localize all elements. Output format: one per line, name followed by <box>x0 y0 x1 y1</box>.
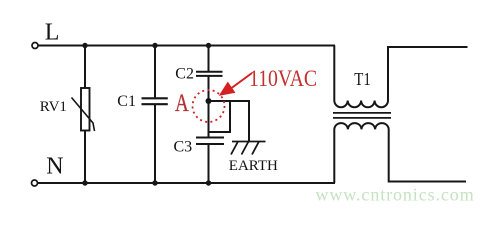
ground earth symbol <box>231 142 266 155</box>
svg-text:110VAC: 110VAC <box>249 65 317 91</box>
label EARTH <box>229 158 278 174</box>
node junction top C1 <box>152 43 157 48</box>
wire earth loop stub <box>209 101 231 132</box>
capacitor C2 <box>196 72 223 76</box>
svg-text:RV1: RV1 <box>40 99 67 115</box>
wire node A to earth <box>209 101 250 142</box>
transformer T1 secondary lead left / wire <box>333 136 335 183</box>
transformer T1 primary lead right <box>388 47 468 94</box>
capacitor C1 <box>142 98 168 104</box>
node junction bottom C3 <box>206 180 211 185</box>
transformer T1 core <box>333 113 391 118</box>
svg-text:T1: T1 <box>354 70 371 89</box>
node A junction <box>206 98 212 104</box>
label C2 <box>175 65 194 82</box>
svg-text:A: A <box>175 88 189 116</box>
wire RV1 bottom <box>84 131 86 184</box>
wire bottom rail N <box>38 182 335 184</box>
watermark <box>316 185 475 205</box>
svg-text:EARTH: EARTH <box>229 158 278 174</box>
svg-text:L: L <box>45 19 60 45</box>
wire C1 bottom <box>154 105 156 183</box>
wire C3 bottom <box>208 145 210 184</box>
svg-text:N: N <box>46 153 63 179</box>
label 110VAC (red) <box>249 65 317 91</box>
annotation arrow red <box>220 73 252 95</box>
label T1 <box>354 70 371 89</box>
svg-text:www.cntronics.com: www.cntronics.com <box>316 185 475 205</box>
transformer T1 secondary winding <box>334 123 388 136</box>
capacitor C3 <box>196 138 224 145</box>
transformer T1 primary winding <box>334 94 388 107</box>
varistor RV1 <box>72 88 95 131</box>
svg-text:C3: C3 <box>174 139 193 156</box>
node junction top RV1 <box>82 43 87 48</box>
label C1 <box>117 93 136 110</box>
node A red dashed circle <box>193 90 225 122</box>
svg-text:C1: C1 <box>117 93 136 110</box>
label L <box>45 19 60 45</box>
label RV1 <box>40 99 67 115</box>
node junction bottom C1 <box>152 180 157 185</box>
label node A (red) <box>175 88 189 116</box>
svg-text:C2: C2 <box>175 65 194 82</box>
wire RV1 top <box>84 46 86 89</box>
wire C2 to node A <box>208 76 210 101</box>
node junction bottom RV1 <box>82 180 87 185</box>
label C3 <box>174 139 193 156</box>
terminal N <box>32 180 38 186</box>
terminal L <box>32 43 38 49</box>
transformer T1 primary lead left <box>333 46 335 95</box>
label N <box>46 153 63 179</box>
node junction top C2 <box>206 43 211 48</box>
transformer T1 secondary lead right / wire bottom right rail <box>389 136 466 182</box>
wire C1 top <box>154 46 156 98</box>
wire node A to C3 <box>208 101 210 137</box>
wire C2 top <box>208 46 210 72</box>
wire top rail L <box>39 45 336 47</box>
